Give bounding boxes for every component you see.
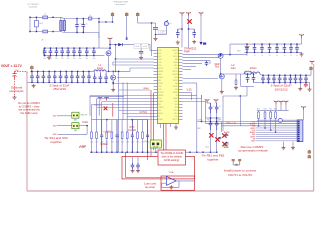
page border left (26, 73, 28, 191)
wire (111, 120, 113, 131)
junction (295, 75, 296, 76)
wire IC pin (102, 101, 154, 103)
svg-text:U8: U8 (41, 40, 43, 42)
capacitor C44 (53, 71, 57, 82)
junction (52, 17, 53, 18)
capacitor C43 (47, 71, 51, 82)
svg-text:PWP: PWP (184, 50, 190, 54)
svg-text:SS1: SS1 (175, 89, 178, 91)
svg-text:10kΩ: 10kΩ (82, 122, 88, 124)
junction (48, 82, 49, 83)
svg-text:22u: 22u (65, 80, 68, 82)
svg-text:0.1uF: 0.1uF (160, 32, 164, 34)
svg-text:1u: 1u (284, 55, 286, 57)
svg-text:10u: 10u (93, 58, 96, 60)
junction (132, 152, 133, 153)
wire top rail input filter right (65, 18, 99, 20)
terminal J3 (136, 12, 139, 15)
capacitor C46 (64, 71, 68, 82)
resistor R17 (126, 131, 128, 140)
op-amp U2 (166, 176, 176, 185)
ground (234, 86, 238, 90)
red X (215, 137, 219, 141)
wire (239, 96, 241, 126)
wire (91, 140, 93, 153)
capacitor C70 (245, 44, 249, 52)
wire switch node 2 (220, 58, 222, 74)
capacitor C51 (93, 73, 97, 82)
svg-text:R48: R48 (274, 108, 277, 110)
svg-text:BOOT2: BOOT2 (158, 92, 163, 94)
wire (140, 53, 142, 56)
wire (209, 61, 211, 64)
wire IC pin (119, 110, 154, 112)
ground (298, 87, 302, 91)
junction (43, 82, 44, 83)
resistor R40 (258, 111, 260, 119)
svg-text:CS2-: CS2- (158, 89, 162, 91)
junction (258, 125, 259, 126)
junction (127, 152, 128, 153)
power flag (214, 99, 218, 103)
junction (118, 71, 119, 72)
wire (112, 16, 114, 22)
wire (246, 50, 248, 55)
junction (29, 17, 30, 18)
junction (115, 58, 116, 59)
wire (216, 113, 218, 118)
junction (98, 21, 99, 22)
capacitor C86 (215, 103, 219, 113)
svg-text:25V/1210: 25V/1210 (275, 87, 288, 91)
wire (303, 110, 305, 120)
MOSFET Q1 high-side (106, 51, 111, 56)
wire (156, 34, 167, 36)
junction (216, 152, 217, 153)
wire (275, 105, 277, 111)
terminal J1 VIN+ (111, 12, 114, 15)
svg-text:COMP1: COMP1 (158, 107, 164, 109)
wire (283, 142, 285, 146)
junction (115, 44, 116, 45)
resistor R21 snubber (235, 79, 237, 86)
capacitor C10 (43, 48, 47, 56)
red X (209, 133, 213, 137)
capacitor C12 (55, 48, 59, 56)
junction (275, 132, 276, 133)
MOSFET Q4 low-side (219, 74, 224, 79)
wire left end (29, 17, 31, 31)
ground (192, 40, 196, 44)
wire (137, 157, 139, 163)
capacitor C74 (275, 44, 279, 52)
page border bottom (27, 190, 314, 192)
resistor R29 (137, 131, 139, 140)
wire EN drop (151, 23, 153, 56)
power flag VDD (187, 12, 191, 16)
wire (280, 105, 282, 111)
ground (176, 41, 180, 45)
wire (60, 31, 62, 32)
junction (71, 82, 72, 83)
wire BOOT1 (116, 58, 154, 60)
svg-text:BP6: BP6 (158, 80, 161, 82)
svg-text:1u: 1u (246, 55, 248, 57)
junction (240, 95, 241, 96)
wire (109, 70, 114, 72)
resistor R20 (142, 131, 144, 140)
junction (112, 21, 113, 22)
wire (79, 125, 87, 127)
wire (113, 61, 154, 63)
wire (218, 56, 220, 58)
junction (50, 55, 51, 56)
wire (104, 47, 110, 49)
value label box C33 (141, 44, 148, 49)
junction (254, 43, 255, 44)
junction (121, 152, 122, 153)
junction (96, 152, 97, 153)
power flag VOUT2 (310, 61, 314, 65)
svg-text:CS1-: CS1- (174, 116, 178, 118)
junction (296, 43, 297, 44)
junction (83, 82, 84, 83)
wire (112, 71, 114, 75)
wire comp rail (257, 109, 289, 111)
junction (88, 82, 89, 83)
resistor R41 (264, 111, 266, 119)
svg-text:FB1: FB1 (158, 104, 161, 106)
wire gate LDRV1 (117, 77, 154, 79)
capacitor C81 (136, 163, 140, 169)
svg-text:input filter: input filter (29, 6, 38, 9)
resistor R23 (106, 131, 108, 140)
wire (285, 105, 287, 111)
junction (179, 152, 180, 153)
wire AGND (175, 124, 177, 126)
svg-text:1u: 1u (276, 55, 278, 57)
svg-text:1u: 1u (213, 106, 215, 108)
power flag (300, 34, 304, 38)
ground (111, 88, 115, 92)
capacitor C55 (246, 74, 250, 83)
wire (221, 122, 223, 133)
wire row3 (222, 125, 298, 127)
svg-text:4022: 4022 (205, 146, 209, 148)
junction (147, 152, 148, 153)
svg-text:22u: 22u (54, 80, 57, 82)
wire (35, 27, 37, 32)
svg-text:R46: R46 (264, 108, 267, 110)
junction (88, 71, 89, 72)
junction (284, 82, 285, 83)
junction (247, 73, 248, 74)
capacitor C85 (209, 103, 213, 113)
wire VDD to IC (181, 16, 183, 48)
wire (149, 45, 151, 51)
wire (90, 96, 124, 98)
svg-text:CS2+: CS2+ (174, 65, 178, 67)
wire (91, 120, 93, 131)
svg-text:EVM setting): EVM setting) (164, 158, 179, 162)
wire (91, 105, 93, 120)
svg-text:COMP1: COMP1 (172, 86, 178, 88)
wire decoupling rail bottom (244, 51, 301, 53)
capacitor C89 (small) (218, 138, 221, 139)
wire (201, 95, 203, 122)
terminal J9b (308, 155, 311, 158)
svg-text:L4: L4 (89, 15, 91, 17)
svg-text:LDRV2: LDRV2 (173, 80, 178, 82)
resistor R43 (275, 111, 277, 119)
junction (79, 55, 80, 56)
capacitor C63 (278, 75, 282, 83)
junction (246, 52, 247, 53)
capacitor C72 (260, 44, 264, 52)
svg-text:HDRV2: HDRV2 (158, 95, 163, 97)
junction (279, 75, 280, 76)
wire (96, 120, 98, 131)
ferrite bead L4 (89, 17, 92, 20)
wire (99, 21, 113, 23)
junction (220, 54, 221, 55)
wire (35, 17, 37, 20)
capacitor C47 (70, 71, 74, 82)
capacitor C11 (49, 48, 53, 56)
svg-text:22u: 22u (82, 80, 85, 82)
wire IC pin right (183, 101, 206, 103)
junction (142, 152, 143, 153)
wire (241, 85, 255, 87)
svg-text:CS2+: CS2+ (158, 86, 162, 88)
wire (43, 48, 45, 56)
svg-text:MOV: MOV (40, 23, 43, 25)
capacitor C77 (295, 44, 299, 52)
svg-text:MODE: MODE (173, 92, 178, 94)
junction (246, 43, 247, 44)
wire (99, 71, 101, 73)
terminal J9 (308, 150, 311, 153)
capacitor C48 (76, 71, 80, 82)
wire (63, 31, 65, 33)
wire (60, 32, 65, 33)
junction (132, 119, 133, 120)
svg-text:22u: 22u (299, 81, 302, 83)
wire IC pin right (183, 95, 197, 97)
svg-text:R45: R45 (257, 108, 260, 110)
junction (276, 43, 277, 44)
svg-text:FB1: FB1 (175, 83, 178, 85)
capacitor C34 (139, 52, 143, 54)
junction (93, 55, 94, 56)
junction (86, 125, 87, 126)
svg-text:22u: 22u (31, 80, 34, 82)
junction (62, 47, 63, 48)
svg-text:1.0k: 1.0k (95, 142, 98, 144)
red remote sense wire 2 (153, 93, 155, 150)
junction (269, 52, 270, 53)
wire (235, 74, 237, 79)
wire PGND return (113, 83, 153, 85)
wire (89, 96, 91, 116)
wire divider drop (126, 82, 128, 119)
capacitor C65 (289, 75, 293, 83)
wire (31, 69, 33, 71)
svg-text:1u: 1u (86, 24, 88, 26)
junction (109, 44, 110, 45)
value label box R32 (134, 44, 140, 49)
junction (56, 55, 57, 56)
wire (257, 119, 297, 121)
wire VIN bank top rail (44, 47, 105, 49)
wire (155, 23, 157, 27)
wire (309, 83, 311, 88)
junction (83, 18, 84, 19)
ground (220, 90, 224, 94)
svg-text:VREF: VREF (143, 88, 149, 90)
junction (29, 31, 30, 32)
wire to Q3 drain (183, 54, 224, 56)
svg-text:BOOT1: BOOT1 (158, 68, 163, 70)
svg-text:10u: 10u (43, 58, 46, 60)
junction (31, 71, 32, 72)
junction (261, 52, 262, 53)
junction (113, 83, 114, 84)
wire (126, 16, 128, 38)
junction (44, 47, 45, 48)
wire (137, 16, 139, 23)
wire (150, 50, 154, 52)
IC U1 pin name labels (158, 50, 178, 121)
junction (60, 82, 61, 83)
junction (54, 71, 55, 72)
wire (216, 130, 218, 152)
svg-text:1.0k: 1.0k (136, 142, 139, 144)
junction (113, 82, 114, 83)
svg-text:SW1: SW1 (174, 53, 177, 55)
svg-text:SS1: SS1 (74, 119, 77, 121)
wire (160, 124, 162, 129)
wire (183, 69, 192, 71)
wire (142, 120, 144, 131)
svg-text:22u: 22u (273, 81, 276, 83)
junction (264, 127, 265, 128)
svg-text:VOUT = 13.7V: VOUT = 13.7V (1, 64, 23, 68)
wire VIN drop (98, 19, 100, 49)
MOSFET Q3 high-side (218, 53, 223, 58)
junction (290, 43, 291, 44)
svg-text:10u: 10u (73, 58, 76, 60)
red stub (112, 103, 114, 117)
svg-text:1.0k: 1.0k (90, 142, 93, 144)
wire (94, 71, 96, 73)
svg-text:SS1_TP: SS1_TP (81, 114, 88, 116)
svg-text:VOUT1 to VOUT2: VOUT1 to VOUT2 (228, 173, 253, 177)
wire (206, 117, 221, 119)
junction (105, 82, 106, 83)
svg-text:BP6: BP6 (237, 51, 240, 53)
wire decoupling rail top (230, 43, 302, 45)
capacitor C66 (294, 75, 298, 83)
svg-text:BOOT2: BOOT2 (173, 71, 178, 73)
capacitor C73 (268, 44, 272, 52)
wire (152, 22, 156, 24)
svg-text:RT: RT (158, 116, 160, 118)
svg-text:(this is the default: (this is the default (162, 155, 183, 159)
svg-text:together: together (50, 140, 61, 144)
capacitor C31 (82, 19, 86, 33)
junction (66, 71, 67, 72)
wire (106, 70, 108, 72)
wire VIN2 (223, 54, 247, 56)
wire (221, 79, 223, 91)
red X (removed divider) (104, 107, 108, 111)
red X (removed) (187, 19, 191, 23)
wire (205, 101, 207, 124)
junction (181, 28, 182, 29)
junction (300, 75, 301, 76)
capacitor C16 (78, 48, 82, 56)
wire top rail input filter (30, 16, 60, 18)
capacitor C17 (85, 48, 89, 56)
capacitor C50 (87, 71, 91, 82)
wire VIN bank bottom rail (44, 55, 105, 57)
junction (189, 152, 190, 153)
svg-text:+1.5kΩ: +1.5kΩ (103, 132, 111, 134)
wire IC pin (97, 98, 154, 100)
capacitor C4 (192, 29, 196, 38)
capacitor C40 (30, 71, 34, 82)
svg-text:0.1uF: 0.1uF (143, 46, 147, 48)
resistor R26 (121, 131, 123, 140)
svg-text:HDRV2: HDRV2 (173, 74, 178, 76)
svg-text:1uH: 1uH (231, 66, 236, 70)
capacitor C80 (131, 163, 135, 169)
svg-text:EN2: EN2 (175, 107, 178, 109)
boot diode D1 (118, 43, 122, 46)
wire (109, 42, 111, 49)
capacitor C64 (283, 75, 287, 83)
wire (178, 28, 182, 30)
wire (106, 120, 108, 131)
junction (210, 117, 211, 118)
svg-text:VOA: VOA (169, 171, 174, 174)
red X (222, 133, 226, 137)
red wire to op-amp (125, 152, 127, 177)
wire (122, 44, 150, 46)
junction (254, 52, 255, 53)
junction (100, 82, 101, 83)
wire (155, 29, 157, 37)
junction (101, 152, 102, 153)
capacitor C41 (36, 71, 40, 82)
svg-text:1.0k: 1.0k (126, 142, 129, 144)
wire (183, 66, 197, 68)
svg-text:10u: 10u (85, 58, 88, 60)
svg-text:1u: 1u (296, 55, 298, 57)
wire FB1 sense drop (118, 71, 120, 152)
capacitor C57 (red optional) (304, 83, 308, 88)
wire (58, 133, 87, 135)
wire (201, 95, 203, 99)
wire (142, 140, 144, 153)
svg-text:SW2: SW2 (158, 98, 161, 100)
wire (188, 16, 190, 48)
svg-text:the buffer amp: the buffer amp (20, 111, 38, 115)
wire (132, 157, 134, 163)
capacitor C92 (100, 120, 103, 153)
svg-text:together: together (207, 157, 218, 161)
